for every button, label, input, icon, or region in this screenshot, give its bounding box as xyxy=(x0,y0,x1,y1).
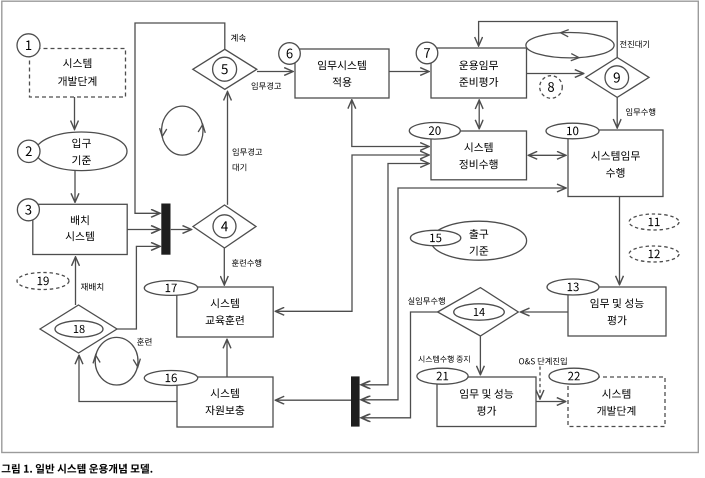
wire decision 18 to bar J1 xyxy=(117,246,160,329)
node 8 circle (dashed) xyxy=(540,76,563,99)
node 16 label ellipse xyxy=(144,371,197,386)
forward standby loop above decision 9 xyxy=(526,29,614,61)
node 17 label ellipse xyxy=(144,281,197,296)
node 2 circle xyxy=(18,140,40,162)
wire bar J2 to box 16 xyxy=(275,399,351,401)
wire decision 4 to box 17 (training perform) xyxy=(223,248,225,285)
wire decision 18 to box 3 (redeploy) xyxy=(75,257,77,305)
wire ellipse2 to box3 xyxy=(74,171,76,203)
wire box 7 to decision 9 xyxy=(527,73,584,75)
node 15 exit criteria ellipse xyxy=(431,221,527,260)
wire box 20 and box 10 double link xyxy=(528,154,566,156)
label forward standby xyxy=(620,40,649,48)
node 7 operation mission readiness eval box xyxy=(431,48,527,98)
label mission perform xyxy=(626,108,655,116)
label continue xyxy=(231,34,246,42)
node 20 label ellipse xyxy=(409,123,460,140)
node 4 decision diamond xyxy=(193,205,256,248)
node 16 system resupply box xyxy=(177,377,273,427)
node 11 ellipse (dashed) xyxy=(629,214,679,230)
wire decision 9 to box 10 (mission perform) xyxy=(616,97,618,128)
node 13 mission and performance eval box xyxy=(568,287,666,336)
iteration loop between decisions 4 and 5 xyxy=(159,106,207,155)
wire continue loop from decision 5 to bar J1 xyxy=(135,23,225,213)
wire box 21 to box 22 xyxy=(536,401,566,403)
wire box3 to join bar J1 xyxy=(127,229,160,231)
node 14 decision diamond xyxy=(438,288,519,336)
label training xyxy=(137,338,152,346)
node 21 label ellipse xyxy=(417,368,468,384)
wire decision 4 to decision 5 (mission alert wait) xyxy=(227,92,229,205)
node 1 circle xyxy=(17,34,40,57)
node 18 decision diamond xyxy=(40,305,117,353)
node 3 circle xyxy=(17,199,39,221)
node 3 deployed system box xyxy=(33,204,127,254)
label mission alert wait line1 xyxy=(233,148,263,156)
label real mission perform xyxy=(408,297,445,305)
node 1 system development phase box (dashed) xyxy=(30,49,126,98)
node 21 mission and performance eval box xyxy=(437,377,536,427)
label O&S phase entry xyxy=(519,357,567,365)
wire box 6 to box 20 link xyxy=(352,100,429,147)
wire bar J2 to box 20 link xyxy=(361,164,429,385)
wire decision 5 to box 6 (mission alert) xyxy=(257,71,293,73)
node 13 label ellipse xyxy=(547,279,599,295)
node 9 decision diamond xyxy=(586,58,649,98)
wire box 16 to box 17 xyxy=(226,339,228,377)
join bar J1 xyxy=(161,204,170,255)
label system perform stop xyxy=(418,355,469,362)
wire box1 to ellipse2 xyxy=(74,97,76,130)
node 5 decision diamond xyxy=(193,49,257,89)
join bar J2 xyxy=(351,376,360,426)
wire box 10 to box 13 xyxy=(619,197,621,285)
wire bar J1 to decision 4 xyxy=(171,229,192,231)
label redeploy xyxy=(81,283,103,291)
wire decision 14 to box 21 xyxy=(479,336,481,375)
wire bar J2 to box 10 link xyxy=(361,188,566,400)
caption figure 1 xyxy=(2,464,153,474)
node 12 ellipse (dashed) xyxy=(629,246,679,262)
node 15 label ellipse xyxy=(410,230,460,245)
label mission alert wait line2 xyxy=(233,164,247,172)
node 6 circle xyxy=(279,43,301,65)
arrowheads into bar J2 xyxy=(361,381,369,388)
wire box 17 to box 20 link xyxy=(275,155,429,311)
wire decision 14 to bar J2 xyxy=(361,312,437,418)
node 2 entry criteria ellipse xyxy=(36,132,127,171)
node 7 circle xyxy=(416,42,438,64)
node 22 system development phase box (dashed) xyxy=(568,377,665,427)
node 10 label ellipse xyxy=(546,123,599,139)
wire box 6 to box 7 xyxy=(389,71,429,73)
arrowheads into bar J1 xyxy=(152,210,160,217)
node 6 mission system apply box xyxy=(295,49,389,98)
wire O&S phase entry dashed arrow xyxy=(539,367,541,400)
wire box 13 to decision 14 xyxy=(521,311,569,313)
training iteration loop near decision 18 xyxy=(92,337,141,385)
node 10 system mission perform box xyxy=(568,130,663,197)
node 22 label ellipse xyxy=(549,368,599,384)
node 19 ellipse (dashed) xyxy=(17,273,69,290)
node 17 system education training box xyxy=(177,287,273,337)
wire box 16 to decision 18 xyxy=(79,355,177,401)
wire decision 9 top loop to box 7 xyxy=(479,22,618,58)
label mission alert xyxy=(252,82,282,90)
wire box 7 and box 20 double link xyxy=(478,100,480,129)
node 20 system maintenance box xyxy=(431,131,527,180)
label training perform xyxy=(232,259,261,267)
